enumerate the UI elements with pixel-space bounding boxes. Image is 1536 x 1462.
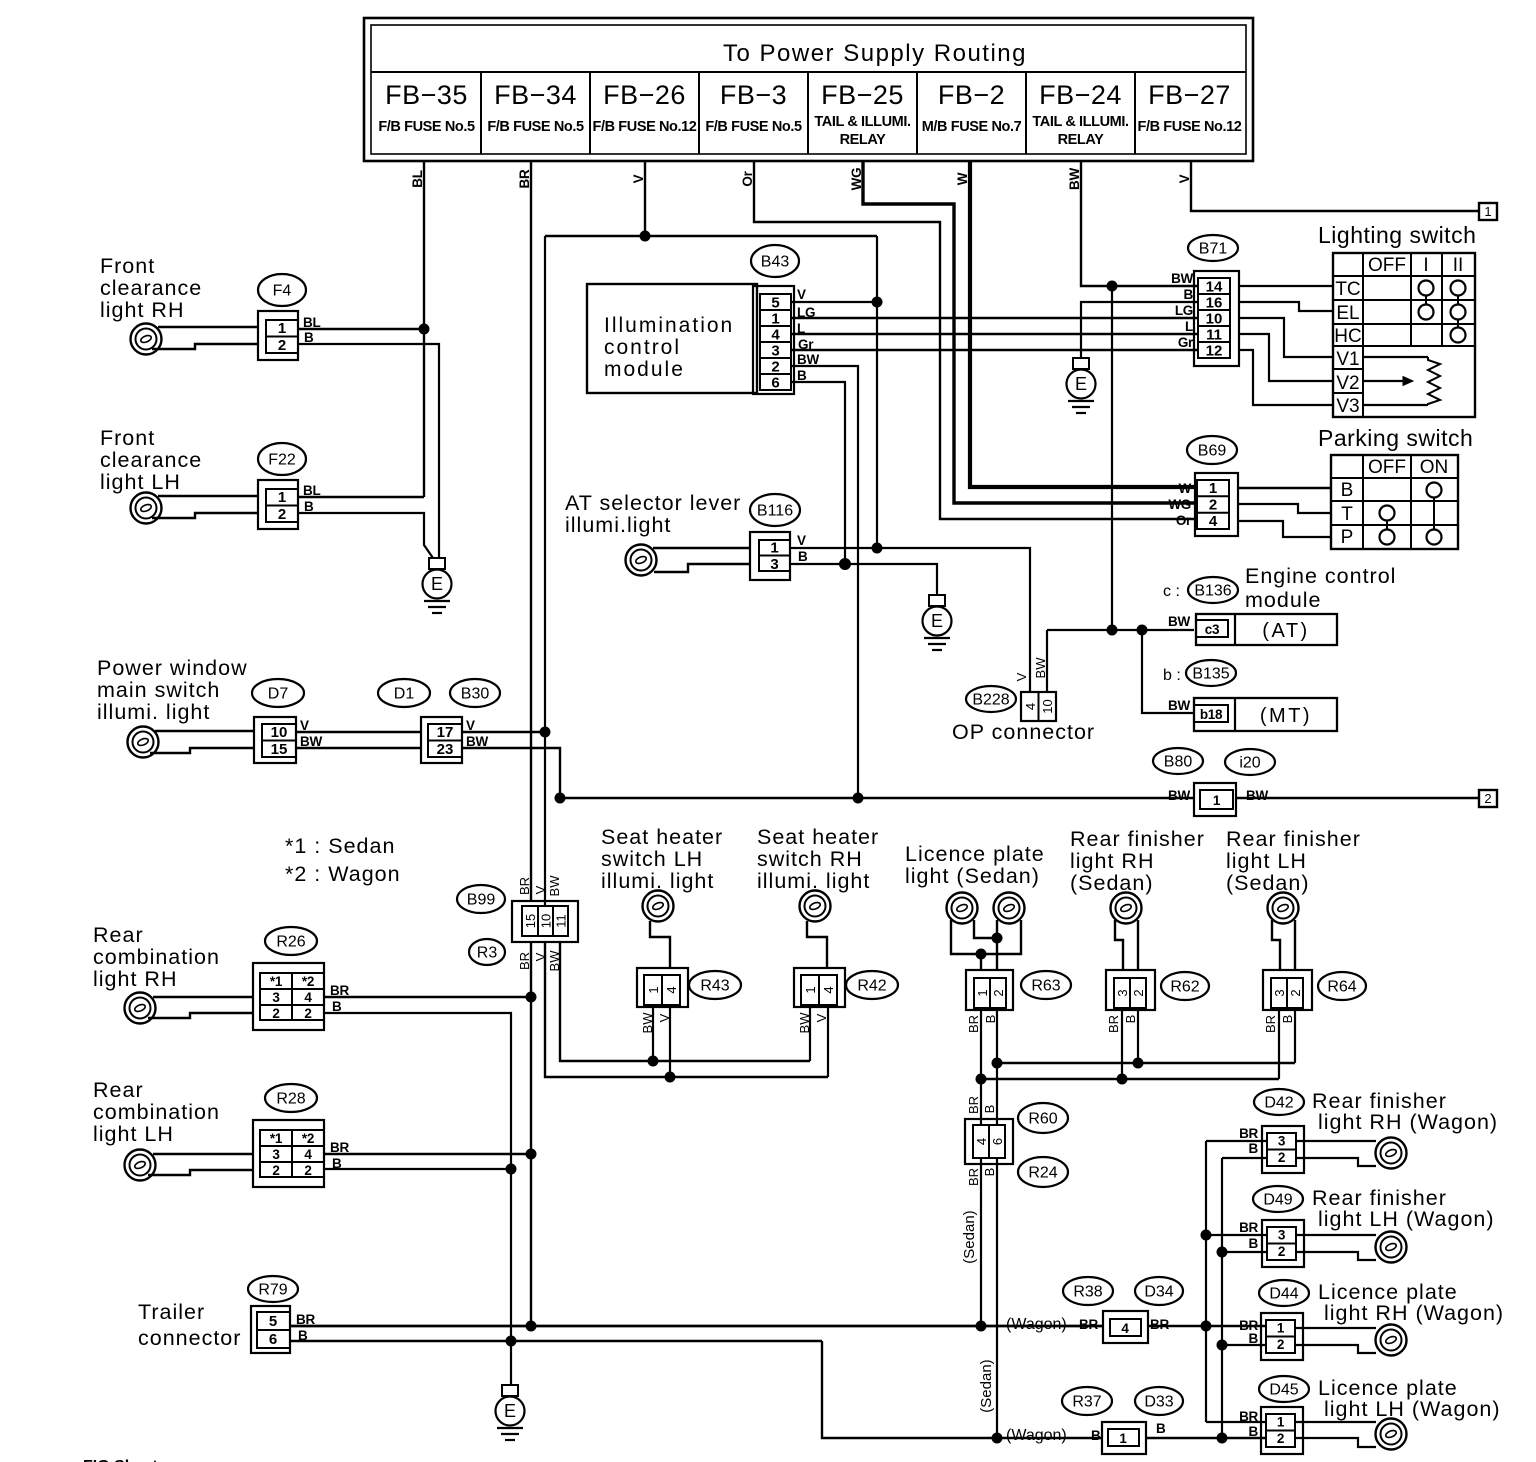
label BW above B99 bbox=[547, 875, 562, 897]
label Seat heater switch RH illumi. light bbox=[757, 825, 879, 893]
junction B D44 bbox=[1217, 1340, 1227, 1350]
svg-text:W: W bbox=[955, 172, 970, 185]
lamp seat heater LH bbox=[643, 891, 674, 922]
wire lamp to R26 bbox=[148, 997, 253, 1018]
label Licence plate light (Sedan) bbox=[905, 842, 1045, 888]
connector F4 ref bbox=[258, 274, 306, 306]
connector R43 bbox=[637, 968, 688, 1007]
label BW right of B80 bbox=[1246, 788, 1268, 803]
svg-text:15: 15 bbox=[271, 741, 288, 758]
svg-text:V: V bbox=[1014, 672, 1029, 681]
label BW below R43 bbox=[640, 1012, 655, 1034]
wire Or from FB-3 bbox=[740, 161, 1197, 519]
label BR below R64 bbox=[1263, 1015, 1278, 1033]
label BR at R26 bbox=[330, 983, 349, 998]
svg-text:16: 16 bbox=[1206, 295, 1223, 312]
svg-text:2: 2 bbox=[1278, 1244, 1285, 1259]
junction B bus at R63 bbox=[992, 1058, 1002, 1068]
svg-text:b :: b : bbox=[1163, 667, 1181, 684]
wire BR from FB-34 bbox=[517, 161, 532, 901]
svg-text:2: 2 bbox=[771, 359, 779, 376]
svg-text:BW: BW bbox=[797, 352, 819, 367]
wire V1 to resistor bbox=[1363, 356, 1428, 358]
label B at F22 bbox=[304, 499, 314, 514]
svg-text:3: 3 bbox=[771, 343, 779, 360]
connector F4 bbox=[258, 311, 298, 360]
label B at D42 bbox=[1249, 1141, 1259, 1156]
label Lighting switch bbox=[1318, 222, 1476, 248]
junction BW vertical bbox=[1107, 625, 1117, 635]
wire BW below B99 to seat heater BW bus bbox=[560, 942, 810, 1061]
connector R64 ref bbox=[1318, 972, 1366, 1000]
label B at D45 bbox=[1249, 1424, 1259, 1439]
connector R26 ref bbox=[265, 927, 317, 955]
connector R37-D33 bbox=[1102, 1422, 1146, 1454]
svg-text:B: B bbox=[304, 499, 314, 514]
junction R43 V bbox=[665, 1072, 675, 1082]
connector D7 bbox=[254, 717, 296, 763]
connector R24 ref bbox=[1018, 1157, 1068, 1187]
svg-text:ON: ON bbox=[1420, 457, 1449, 478]
svg-text:LG: LG bbox=[1175, 303, 1193, 318]
svg-text:BR: BR bbox=[966, 1096, 981, 1114]
label (Wagon) BR bbox=[1006, 1316, 1169, 1333]
wire lamp to R43 bbox=[650, 921, 670, 968]
svg-text:2: 2 bbox=[1209, 497, 1217, 514]
svg-text:*1 : Sedan: *1 : Sedan bbox=[285, 834, 395, 858]
label V above B99 bbox=[533, 885, 548, 894]
svg-text:light RH: light RH bbox=[93, 967, 177, 991]
wire B71 pin14 to TC bbox=[1239, 285, 1333, 287]
svg-text:V2: V2 bbox=[1336, 373, 1359, 394]
lamp licence plate 1 bbox=[947, 893, 978, 924]
svg-text:D7: D7 bbox=[268, 686, 289, 703]
svg-text:AT selector lever: AT selector lever bbox=[565, 491, 741, 515]
wire B B116 to ground bbox=[790, 564, 937, 595]
lamp AT selector bbox=[626, 545, 657, 576]
lighting switch grid bbox=[1333, 253, 1475, 417]
svg-text:R43: R43 bbox=[700, 978, 729, 995]
label Trailer connector bbox=[138, 1300, 241, 1350]
svg-text:c :: c : bbox=[1163, 583, 1180, 600]
junction B at B116 bbox=[840, 559, 851, 570]
wire B trailer down to wagon bus bbox=[822, 1341, 1102, 1438]
junction R43 BW bbox=[648, 1056, 658, 1066]
wire lamp to R42 bbox=[807, 921, 827, 968]
wire BR wagon right bbox=[1148, 1325, 1265, 1327]
svg-text:4: 4 bbox=[1209, 513, 1218, 530]
svg-text:BW: BW bbox=[1246, 788, 1268, 803]
wire L B43 to B71 bbox=[791, 333, 1198, 336]
svg-text:T: T bbox=[1341, 504, 1353, 525]
lamp rear combination LH bbox=[125, 1150, 156, 1181]
label Rear finisher light LH (Sedan) bbox=[1226, 827, 1361, 895]
lamp rear finisher RH wagon bbox=[1376, 1138, 1407, 1169]
svg-text:B: B bbox=[1249, 1331, 1259, 1346]
svg-text:1: 1 bbox=[278, 489, 286, 506]
svg-text:6: 6 bbox=[269, 1331, 277, 1348]
svg-text:2: 2 bbox=[278, 337, 286, 354]
svg-text:4: 4 bbox=[974, 1138, 989, 1145]
wire lamps to R63 bbox=[951, 920, 1021, 970]
svg-text:TC: TC bbox=[1335, 279, 1360, 300]
svg-text:D33: D33 bbox=[1144, 1394, 1173, 1411]
wire BL from FB-35 bbox=[410, 161, 425, 497]
wire V branch left below B99 to seat heater V bus bbox=[545, 942, 828, 1077]
connector R62 bbox=[1106, 970, 1155, 1010]
connector B43 ref bbox=[751, 245, 799, 277]
svg-text:23: 23 bbox=[437, 741, 454, 758]
svg-text:10: 10 bbox=[271, 724, 288, 741]
svg-text:BL: BL bbox=[303, 315, 320, 330]
svg-text:V: V bbox=[814, 1013, 829, 1022]
svg-text:3: 3 bbox=[1278, 1134, 1286, 1149]
partial figure caption bbox=[83, 1458, 158, 1462]
svg-text:R42: R42 bbox=[857, 978, 886, 995]
svg-text:F/B FUSE No.5: F/B FUSE No.5 bbox=[378, 119, 475, 135]
svg-text:connector: connector bbox=[138, 1326, 241, 1350]
svg-text:light RH (Wagon): light RH (Wagon) bbox=[1318, 1110, 1498, 1134]
svg-text:F/B FUSE No.5: F/B FUSE No.5 bbox=[705, 119, 802, 135]
wire lamp to R62 bbox=[1115, 920, 1138, 970]
svg-text:W: W bbox=[1179, 481, 1192, 496]
svg-text:3: 3 bbox=[1115, 989, 1130, 996]
wire BW bus to connector 2 bbox=[1236, 797, 1479, 800]
lamp front clearance RH bbox=[131, 324, 162, 355]
connector B228 pins 4 10 bbox=[1021, 692, 1056, 721]
connector D42 ref bbox=[1254, 1089, 1304, 1115]
label B at D49 bbox=[1249, 1236, 1259, 1251]
wire B71 pin10 to V1 bbox=[1239, 318, 1333, 357]
wire BW B43 pin2 down bbox=[791, 366, 858, 798]
wire V B43 pin5 bbox=[791, 301, 877, 303]
wire BR into D42 bbox=[1206, 1140, 1267, 1142]
svg-text:RELAY: RELAY bbox=[840, 132, 887, 148]
svg-text:4: 4 bbox=[1121, 1321, 1129, 1336]
svg-text:4: 4 bbox=[304, 990, 312, 1005]
wire B69 pin4 to P bbox=[1238, 521, 1331, 537]
wire R42 pin4 V bbox=[827, 1007, 829, 1077]
wire BR R26 bbox=[324, 996, 531, 998]
connector R28 ref bbox=[265, 1084, 317, 1112]
svg-text:(Sedan): (Sedan) bbox=[1070, 871, 1154, 895]
svg-text:light LH: light LH bbox=[1226, 849, 1307, 873]
connector R60 ref bbox=[1018, 1103, 1068, 1133]
label WG at B69 bbox=[1168, 497, 1191, 512]
svg-text:TAIL & ILLUMI.: TAIL & ILLUMI. bbox=[1032, 114, 1129, 130]
connector F22 ref bbox=[258, 443, 306, 475]
svg-text:B: B bbox=[332, 999, 342, 1014]
wire BW bus bbox=[560, 797, 1194, 800]
junction BR sedan bbox=[976, 1321, 986, 1331]
svg-text:E: E bbox=[431, 574, 443, 594]
svg-text:Or: Or bbox=[1176, 513, 1192, 528]
wire B F4 to ground bbox=[298, 344, 439, 558]
svg-text:B: B bbox=[797, 368, 807, 383]
wire B wagon right bbox=[1146, 1437, 1265, 1439]
label BR at D42 bbox=[1239, 1126, 1258, 1141]
label Front clearance light LH bbox=[100, 426, 202, 494]
svg-text:3: 3 bbox=[272, 1147, 280, 1162]
wire R42 pin1 BW bbox=[809, 1007, 811, 1061]
svg-text:light LH: light LH bbox=[93, 1122, 174, 1146]
connector D42 bbox=[1262, 1126, 1304, 1173]
svg-text:D42: D42 bbox=[1264, 1095, 1293, 1112]
svg-text:5: 5 bbox=[269, 1313, 277, 1330]
svg-text:WG: WG bbox=[849, 168, 864, 191]
junction B trailer bbox=[506, 1336, 516, 1346]
connector R42 bbox=[794, 968, 845, 1007]
label B at B43 pin 6 bbox=[797, 368, 807, 383]
connector B30 ref bbox=[450, 679, 500, 707]
svg-text:R24: R24 bbox=[1028, 1165, 1057, 1182]
svg-text:B: B bbox=[1280, 1015, 1295, 1024]
label BW left of B80 bbox=[1168, 788, 1190, 803]
svg-text:4: 4 bbox=[1023, 703, 1038, 710]
svg-text:light RH (Wagon): light RH (Wagon) bbox=[1324, 1301, 1504, 1325]
wire D44 to lamp bbox=[1295, 1328, 1376, 1353]
svg-text:FB−26: FB−26 bbox=[603, 80, 686, 110]
svg-text:combination: combination bbox=[93, 1100, 220, 1124]
svg-text:Seat heater: Seat heater bbox=[601, 825, 723, 849]
svg-text:D49: D49 bbox=[1263, 1192, 1292, 1209]
label OP connector bbox=[952, 720, 1095, 744]
label BR below R62 bbox=[1106, 1015, 1121, 1033]
wire lamp to F4 bbox=[152, 327, 258, 349]
svg-text:M/B FUSE No.7: M/B FUSE No.7 bbox=[922, 119, 1022, 135]
svg-text:D45: D45 bbox=[1269, 1382, 1298, 1399]
svg-text:B: B bbox=[1091, 1428, 1101, 1443]
wire BR sedan down bbox=[980, 1158, 982, 1326]
junction V at B30 bbox=[540, 727, 550, 737]
junction BR D49 bbox=[1201, 1230, 1211, 1240]
label B at B116 bbox=[798, 549, 808, 564]
label B at D44 bbox=[1249, 1331, 1259, 1346]
wire lamp to D7 bbox=[150, 731, 254, 753]
svg-text:1: 1 bbox=[1213, 793, 1221, 808]
label BR at R28 bbox=[330, 1140, 349, 1155]
label Parking switch bbox=[1318, 425, 1473, 451]
svg-text:1: 1 bbox=[1209, 480, 1217, 497]
svg-text:B135: B135 bbox=[1192, 666, 1229, 683]
svg-text:3: 3 bbox=[770, 556, 778, 573]
wire B R28 bbox=[324, 1168, 511, 1170]
svg-text:1: 1 bbox=[1119, 1431, 1127, 1446]
junction V at B116 bbox=[872, 543, 882, 553]
svg-text:BL: BL bbox=[303, 483, 320, 498]
svg-text:(Sedan): (Sedan) bbox=[1226, 871, 1310, 895]
wire V from FB-26 bbox=[631, 161, 646, 236]
svg-text:BW: BW bbox=[1033, 657, 1048, 679]
label BR below B99 bbox=[517, 952, 532, 970]
svg-text:(Wagon): (Wagon) bbox=[1006, 1427, 1067, 1444]
svg-text:BR: BR bbox=[966, 1015, 981, 1033]
label B at F4 bbox=[304, 330, 314, 345]
connector R79 bbox=[251, 1306, 290, 1353]
label Licence plate light RH (Wagon) bbox=[1318, 1280, 1504, 1325]
connector D45 bbox=[1261, 1407, 1303, 1454]
wire V branch left vertical to B99 bbox=[544, 236, 546, 906]
svg-text:1: 1 bbox=[975, 989, 990, 996]
svg-text:BR: BR bbox=[517, 952, 532, 970]
svg-text:BR: BR bbox=[330, 983, 349, 998]
svg-text:4: 4 bbox=[771, 327, 780, 344]
svg-text:*2: *2 bbox=[302, 974, 314, 989]
svg-text:1: 1 bbox=[770, 540, 778, 557]
svg-text:Rear finisher: Rear finisher bbox=[1226, 827, 1361, 851]
connector B80 ref bbox=[1153, 748, 1203, 774]
lamp front clearance LH bbox=[131, 493, 162, 524]
svg-text:R63: R63 bbox=[1031, 978, 1060, 995]
svg-text:FB−27: FB−27 bbox=[1148, 80, 1231, 110]
label B above R60 bbox=[982, 1105, 997, 1114]
wire D42 to lamp bbox=[1296, 1141, 1376, 1166]
svg-text:Or: Or bbox=[740, 170, 755, 186]
connector D1 ref bbox=[378, 679, 430, 707]
resistor lighting switch rheostat bbox=[1428, 357, 1440, 405]
svg-text:switch RH: switch RH bbox=[757, 847, 863, 871]
svg-text:FB−24: FB−24 bbox=[1039, 80, 1122, 110]
junction B D49 bbox=[1217, 1247, 1227, 1257]
junction V at B43 bbox=[872, 297, 882, 307]
svg-text:D34: D34 bbox=[1144, 1284, 1173, 1301]
svg-text:module: module bbox=[1245, 588, 1322, 612]
lamp rear finisher RH sedan bbox=[1111, 893, 1142, 924]
connector R63 bbox=[966, 970, 1013, 1010]
connector R43 ref bbox=[689, 971, 741, 999]
lamp rear finisher LH wagon bbox=[1376, 1232, 1407, 1263]
label b : bbox=[1163, 667, 1181, 684]
wire B71 pin16 to ground bbox=[1081, 302, 1198, 358]
junction BR R28 bbox=[526, 1149, 536, 1159]
svg-text:F4: F4 bbox=[273, 283, 292, 300]
wire BW from FB-24 bbox=[1067, 161, 1198, 286]
svg-text:F/B FUSE No.12: F/B FUSE No.12 bbox=[593, 119, 697, 135]
off-page connector 1 bbox=[1479, 203, 1497, 220]
ground E front clearance bbox=[423, 558, 452, 613]
svg-text:Front: Front bbox=[100, 426, 155, 450]
connector B99 pins 15 10 11 bbox=[512, 901, 578, 942]
svg-text:4: 4 bbox=[664, 986, 679, 993]
svg-text:2: 2 bbox=[1131, 989, 1146, 996]
svg-text:B: B bbox=[983, 1015, 998, 1024]
svg-text:Parking switch: Parking switch bbox=[1318, 425, 1473, 451]
label Rear combination light LH bbox=[93, 1078, 220, 1146]
wire B trailer bbox=[290, 1340, 822, 1342]
parking switch contacts bbox=[1380, 483, 1442, 545]
label B at R26 bbox=[332, 999, 342, 1014]
connector B136 ref bbox=[1188, 577, 1238, 603]
svg-text:WG: WG bbox=[1168, 497, 1191, 512]
label Rear finisher light LH (Wagon) bbox=[1312, 1186, 1495, 1231]
label AT selector lever illumi.light bbox=[565, 491, 741, 537]
ground E rear combination bbox=[496, 1385, 525, 1440]
label BR above B99 bbox=[517, 877, 532, 895]
label BR at D49 bbox=[1239, 1220, 1258, 1235]
label V at D7 bbox=[300, 718, 309, 733]
connector B80-i20 bbox=[1194, 783, 1236, 816]
svg-text:B: B bbox=[1249, 1424, 1259, 1439]
wire BW D7 to D1 bbox=[296, 747, 421, 749]
wire BR wagon vertical bbox=[1205, 1141, 1207, 1422]
svg-text:control: control bbox=[604, 336, 681, 359]
label BR at R79 bbox=[296, 1312, 315, 1327]
svg-text:B: B bbox=[304, 330, 314, 345]
svg-text:BL: BL bbox=[410, 170, 425, 187]
lamp rear finisher LH sedan bbox=[1268, 893, 1299, 924]
svg-text:Seat heater: Seat heater bbox=[757, 825, 879, 849]
wire LG B43 to B71 bbox=[791, 317, 1198, 320]
svg-text:1: 1 bbox=[771, 311, 779, 328]
connector b18 and MT box bbox=[1194, 698, 1337, 731]
label Front clearance light RH bbox=[100, 254, 202, 322]
svg-text:B43: B43 bbox=[761, 254, 790, 271]
label BW at B71 pin 14 bbox=[1171, 271, 1193, 286]
svg-text:P: P bbox=[1341, 527, 1354, 548]
connector R60 pins 4 6 bbox=[965, 1119, 1013, 1164]
svg-text:2: 2 bbox=[1278, 1150, 1285, 1165]
label BR below R60 bbox=[966, 1168, 981, 1186]
svg-text:main switch: main switch bbox=[97, 678, 220, 702]
svg-text:BR: BR bbox=[517, 169, 532, 188]
lamp licence plate RH wagon bbox=[1376, 1325, 1407, 1356]
label BW at D7 bbox=[300, 734, 322, 749]
svg-text:6: 6 bbox=[771, 375, 779, 392]
svg-text:(Wagon): (Wagon) bbox=[1006, 1316, 1067, 1333]
wire R62 pin2 B bbox=[1137, 1010, 1139, 1063]
svg-text:combination: combination bbox=[93, 945, 220, 969]
svg-text:D44: D44 bbox=[1269, 1286, 1298, 1303]
svg-text:17: 17 bbox=[437, 724, 454, 741]
connector R38-D34 bbox=[1103, 1311, 1148, 1343]
svg-text:RELAY: RELAY bbox=[1058, 132, 1105, 148]
svg-text:B99: B99 bbox=[467, 892, 496, 909]
svg-text:Trailer: Trailer bbox=[138, 1300, 205, 1324]
svg-text:2: 2 bbox=[1288, 989, 1303, 996]
wire V B116 to OP connector bbox=[790, 548, 1030, 692]
svg-text:V: V bbox=[300, 718, 309, 733]
wire V from FB-27 to connector 1 bbox=[1177, 161, 1479, 211]
wire B down to trailer level bbox=[510, 1169, 512, 1341]
svg-text:BR: BR bbox=[1106, 1015, 1121, 1033]
svg-text:To Power Supply Routing: To Power Supply Routing bbox=[723, 40, 1027, 67]
wire R43 pin1 BW bbox=[652, 1007, 654, 1061]
svg-text:*2: *2 bbox=[302, 1131, 314, 1146]
svg-text:*1: *1 bbox=[270, 1131, 283, 1146]
connector B43 pins 5 1 4 3 2 6 bbox=[753, 286, 794, 394]
svg-text:BR: BR bbox=[330, 1140, 349, 1155]
svg-text:(AT): (AT) bbox=[1262, 620, 1309, 642]
label Rear finisher light RH (Wagon) bbox=[1312, 1089, 1498, 1134]
svg-text:5: 5 bbox=[771, 295, 779, 312]
wire R64 pin3 BR bbox=[1278, 1010, 1280, 1079]
svg-text:module: module bbox=[604, 358, 685, 381]
label BL at F4 bbox=[303, 315, 320, 330]
connector B228 ref bbox=[966, 686, 1016, 712]
junction BR wagon bbox=[1201, 1321, 1211, 1331]
label Gr at B71 pin 12 bbox=[1178, 335, 1194, 350]
svg-text:1: 1 bbox=[1277, 1415, 1285, 1430]
lamp seat heater RH bbox=[800, 891, 831, 922]
svg-text:BW: BW bbox=[547, 875, 562, 897]
svg-text:FIG Sheet: FIG Sheet bbox=[83, 1458, 158, 1462]
svg-text:B: B bbox=[798, 549, 808, 564]
wire B bus sedan bbox=[997, 1062, 1295, 1064]
svg-text:BW: BW bbox=[1171, 271, 1193, 286]
label BW at B43 pin 2 bbox=[797, 352, 819, 367]
wire R43 pin4 V bbox=[669, 1007, 671, 1077]
wire B69 pin1 to B bbox=[1238, 487, 1331, 489]
